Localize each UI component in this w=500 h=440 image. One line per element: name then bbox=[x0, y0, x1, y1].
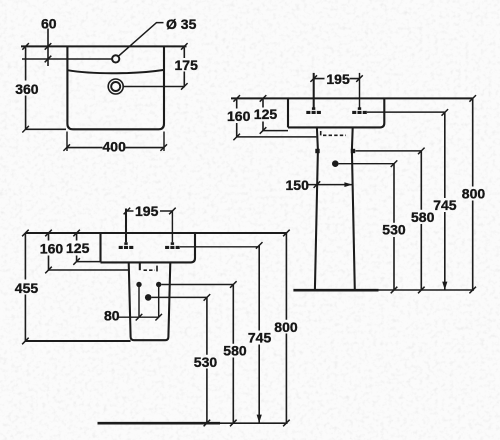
svg-text:800: 800 bbox=[274, 319, 298, 335]
svg-text:80: 80 bbox=[104, 307, 120, 323]
svg-text:150: 150 bbox=[286, 177, 310, 193]
svg-text:455: 455 bbox=[15, 280, 39, 296]
svg-text:60: 60 bbox=[41, 15, 57, 31]
svg-text:195: 195 bbox=[326, 71, 350, 87]
svg-text:745: 745 bbox=[248, 330, 272, 346]
svg-text:530: 530 bbox=[194, 354, 218, 370]
svg-text:360: 360 bbox=[15, 81, 39, 97]
svg-text:530: 530 bbox=[382, 222, 406, 238]
svg-text:Ø 35: Ø 35 bbox=[166, 16, 197, 32]
svg-text:580: 580 bbox=[411, 209, 435, 225]
svg-text:125: 125 bbox=[66, 240, 90, 256]
svg-text:175: 175 bbox=[175, 57, 199, 73]
svg-text:160: 160 bbox=[40, 240, 64, 256]
svg-text:800: 800 bbox=[462, 185, 486, 201]
svg-text:195: 195 bbox=[135, 203, 159, 219]
svg-text:745: 745 bbox=[433, 197, 457, 213]
svg-text:580: 580 bbox=[223, 343, 247, 359]
svg-text:400: 400 bbox=[103, 138, 127, 154]
svg-text:160: 160 bbox=[227, 108, 251, 124]
svg-text:125: 125 bbox=[254, 106, 278, 122]
